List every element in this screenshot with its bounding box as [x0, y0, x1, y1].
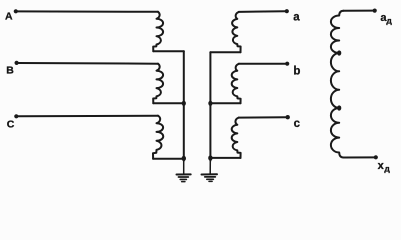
wire x_d [344, 156, 374, 158]
neutral bus secondary [209, 52, 211, 160]
neutral bus primary [183, 51, 185, 161]
node c [286, 115, 290, 119]
winding c2 (secondary phase c) [232, 118, 241, 158]
ground primary [177, 161, 191, 182]
svg-text:C: C [7, 119, 15, 131]
winding a2 (secondary phase a) [232, 12, 240, 52]
svg-text:д: д [384, 164, 390, 174]
winding B1 (primary phase B) [153, 64, 163, 103]
wire a [239, 10, 285, 13]
wire a2 to neutral bus [210, 51, 240, 53]
wire a_d [344, 10, 373, 12]
node B [15, 61, 19, 65]
node a_d [373, 9, 377, 13]
winding A1 (primary phase A) [153, 12, 163, 51]
node a [285, 9, 289, 13]
tap 2 junction [337, 105, 341, 110]
wire C1 to neutral bus [153, 158, 184, 160]
node b [285, 62, 289, 66]
node A [14, 9, 18, 13]
wire b2 to neutral bus [210, 102, 240, 104]
svg-text:c: c [294, 118, 301, 130]
svg-text:A: A [5, 11, 13, 23]
wire A [18, 10, 159, 12]
wire c2 to neutral bus [210, 157, 240, 159]
svg-text:b: b [293, 66, 300, 78]
winding C1 (primary phase C) [153, 116, 163, 159]
svg-text:a: a [293, 11, 300, 23]
wire c [239, 116, 286, 118]
junction primary C [182, 156, 186, 161]
winding b2 (secondary phase b) [232, 64, 241, 103]
wire B [18, 62, 158, 65]
junction secondary c [208, 155, 212, 160]
junction primary B [182, 101, 186, 106]
node x_d [374, 155, 378, 159]
wire A1 to neutral bus [153, 50, 184, 52]
node C [14, 114, 18, 118]
tap 1 junction [337, 50, 341, 55]
junction secondary b [208, 101, 212, 106]
wire b [239, 63, 285, 65]
winding additional (regulating winding) [331, 11, 344, 158]
wire C [18, 115, 158, 118]
wire B1 to neutral bus [153, 102, 184, 104]
svg-text:B: B [6, 65, 14, 77]
svg-text:д: д [386, 15, 392, 25]
ground secondary [202, 161, 218, 182]
